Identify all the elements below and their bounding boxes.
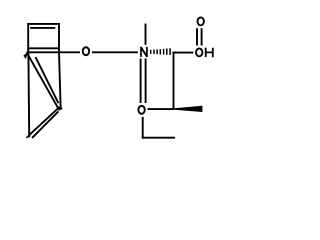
bond ring O down to ethyl CH2 — [142, 117, 144, 139]
bond ether O to N — [92, 51, 138, 53]
bond C2 to carboxyl — [172, 52, 193, 54]
cage bond A-D left vertical — [27, 52, 30, 136]
cage bond D-C double bond second line — [32, 111, 58, 137]
atom label O carbonyl — [198, 17, 204, 25]
atom label O ring — [138, 106, 144, 114]
small solid wedge at node C — [58, 106, 63, 111]
apex foot at node D — [26, 134, 31, 138]
cyclobutene bottom double bond inner line — [28, 47, 59, 49]
ring N=O double bond line 1 — [140, 59, 142, 104]
cage bond A-C double bond second line — [36, 57, 59, 103]
cage bond B-C right vertical — [59, 52, 61, 109]
bond N to methyl (up) — [145, 24, 147, 45]
ring bond C3 to ring O — [148, 108, 175, 110]
cyclobutene ring left edge — [27, 23, 29, 52]
cyclobutene top double bond inner line — [30, 27, 55, 29]
cage bottom edge continuing as bond to ether O — [26, 51, 80, 53]
cage bond D-C diagonal main line — [29, 107, 60, 135]
cyclobutene ring right edge — [58, 23, 60, 52]
bond ethyl CH2 to CH3 — [142, 137, 175, 139]
cyclobutene ring top edge — [27, 23, 60, 25]
hashed wedge bond N to C2 — [151, 48, 170, 55]
atom label N — [141, 47, 147, 57]
cage bond A-C diagonal main line — [27, 53, 59, 110]
carboxyl C=O double bond line 1 — [196, 28, 198, 45]
ring N=O double bond line 2 — [145, 59, 147, 104]
ring bond C2 to C3 — [173, 53, 175, 109]
atom label OH : O — [196, 48, 202, 56]
carboxyl C=O double bond line 2 — [201, 28, 203, 45]
atom label OH : H — [206, 48, 213, 58]
bold wedge bond C3 to methyl — [174, 106, 202, 112]
atom label O ether — [83, 47, 89, 55]
small solid wedge at node A — [23, 52, 28, 59]
